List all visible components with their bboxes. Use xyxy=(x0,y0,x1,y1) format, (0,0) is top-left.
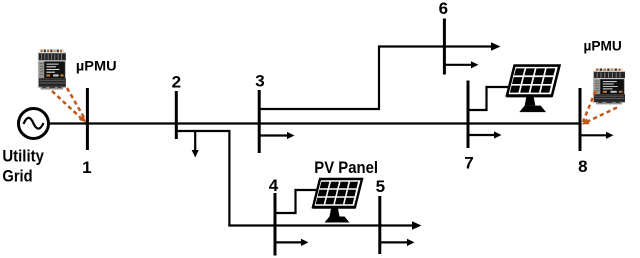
svg-text:1: 1 xyxy=(82,158,91,177)
wire bus3 to bus6 with arrow xyxy=(259,47,493,110)
wire bus2 branch down to bottom feeder xyxy=(176,131,229,226)
uPMU dashed link right B xyxy=(585,108,618,124)
wire bus7 step to PV panel xyxy=(468,87,510,110)
bus 6 xyxy=(443,19,446,75)
svg-text:8: 8 xyxy=(578,157,587,176)
uPMU device right xyxy=(593,68,625,104)
load arrow at bus 3 xyxy=(259,134,288,136)
svg-text:6: 6 xyxy=(439,0,448,18)
bus 4 xyxy=(274,193,277,256)
svg-text:2: 2 xyxy=(172,73,181,92)
load arrow at bus 5 xyxy=(380,241,408,243)
main feeder wire bus1..bus8 xyxy=(49,122,581,124)
bus 7 xyxy=(467,81,470,149)
bus 2 xyxy=(175,91,178,139)
load arrow at bus 6 xyxy=(444,64,472,66)
wire bus4 step to PV panel xyxy=(275,190,316,213)
svg-text:5: 5 xyxy=(376,177,385,196)
bus 8 xyxy=(579,88,582,151)
uPMU device left xyxy=(38,50,66,90)
PV panel at bus 7 xyxy=(506,66,559,113)
svg-text:PV Panel: PV Panel xyxy=(314,158,378,177)
uPMU dashed link left A xyxy=(52,91,83,120)
load arrow at bus 7 xyxy=(468,134,495,136)
PV panel at bus 4 xyxy=(312,179,362,223)
svg-text:4: 4 xyxy=(269,176,279,195)
load arrow at bus 8 xyxy=(580,134,607,136)
svg-text:7: 7 xyxy=(464,154,473,173)
bus 1 xyxy=(86,88,89,150)
uPMU dashed link left B xyxy=(67,88,84,118)
svg-text:Grid: Grid xyxy=(2,167,32,186)
svg-text:3: 3 xyxy=(255,72,264,91)
svg-text:Utility: Utility xyxy=(2,146,44,165)
bus 5 xyxy=(378,196,381,254)
load arrow at bus 2 xyxy=(194,131,196,151)
bus 3 xyxy=(258,90,261,153)
svg-text:µPMU: µPMU xyxy=(76,58,117,74)
orange arrowhead left xyxy=(79,115,87,122)
svg-text:µPMU: µPMU xyxy=(584,37,622,53)
uPMU dashed link right A xyxy=(583,91,596,122)
load arrow at bus 4 xyxy=(275,241,302,243)
wire bottom feeder with arrow xyxy=(228,224,414,226)
utility grid source xyxy=(19,109,49,139)
orange arrowhead right xyxy=(582,118,590,124)
